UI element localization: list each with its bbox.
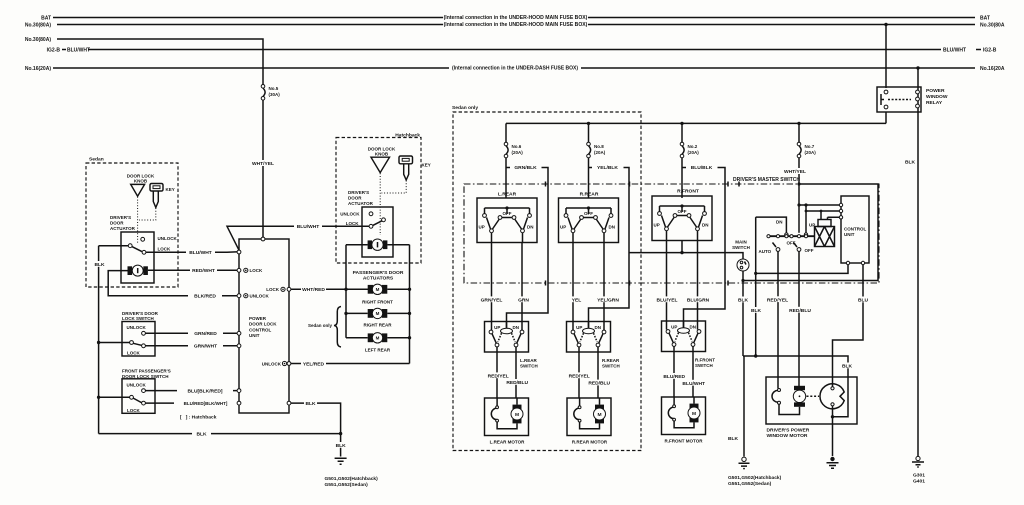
wire main switch to BLK output [742,271,744,356]
svg-text:G551,G552(Sedan): G551,G552(Sedan) [325,482,369,488]
svg-text:DOOR: DOOR [348,196,362,201]
svg-text:ACTUATORS: ACTUATORS [363,276,394,282]
svg-text:DRIVER'S: DRIVER'S [110,215,131,220]
svg-text:No.16(20A): No.16(20A) [25,66,51,72]
wire GRN/WHT [145,345,237,347]
actuator contacts [369,212,373,216]
hatchback actuator motor [368,240,372,249]
ground G301/G401 [916,456,920,460]
svg-text:No.30(80A): No.30(80A) [25,37,51,43]
wire relay output to window rail [885,112,887,123]
driver's master switch dash-dot boundary [464,184,879,283]
svg-text:BLU/WHT: BLU/WHT [67,48,90,54]
svg-text:OFF: OFF [805,248,814,253]
svg-text:R.FRONT: R.FRONT [677,188,699,194]
terminal UNLOCK in [237,294,241,298]
wire fuse No.8 to R.REAR master switch [588,158,590,198]
svg-text:GRN/WHT: GRN/WHT [194,344,217,350]
svg-text:SWITCH: SWITCH [695,363,713,368]
svg-text:G401: G401 [913,479,925,485]
svg-text:SWITCH: SWITCH [602,363,620,368]
rocker contact bar [768,235,815,237]
svg-text:UNLOCK: UNLOCK [158,236,178,241]
svg-text:BLK: BLK [751,308,762,314]
svg-text:LOCK: LOCK [250,268,263,273]
svg-text:RIGHT REAR: RIGHT REAR [364,322,393,327]
svg-text:BLU/WHT: BLU/WHT [943,48,966,54]
ground G501/G551 (control unit) [335,458,347,464]
wire actuator common to BLK rail [99,245,129,247]
terminal LOCK in [237,268,241,272]
svg-text:AUTO: AUTO [759,249,772,254]
svg-text:G501,G502(Hatchback): G501,G502(Hatchback) [728,475,782,481]
svg-text:WHT/RED: WHT/RED [302,287,325,293]
label RED/YEL [765,296,791,302]
svg-text:BLK/RED: BLK/RED [194,294,216,300]
svg-text:PASSENGER'S DOOR: PASSENGER'S DOOR [353,270,404,276]
svg-text:LEFT REAR: LEFT REAR [365,348,391,353]
door switch R.REAR [567,322,611,353]
wire YEL master to R.REAR switch [572,243,574,331]
driver's door actuator box (sedan) [121,232,154,283]
terminal GRN/WHT [237,344,241,348]
relay coil-contact dashed link [888,99,911,101]
svg-text:R.REAR: R.REAR [580,192,599,198]
actuator switch contacts [141,237,145,241]
wire BLU/BLK feed branch R.FRONT [682,168,725,330]
svg-text:No.16(20A: No.16(20A [980,66,1005,72]
svg-text:RED/YEL: RED/YEL [569,373,590,379]
svg-text:(20A): (20A) [688,150,700,155]
power window relay box [877,87,921,112]
sedan actuator motor [128,266,133,275]
terminal BLU/RED[BLK/WHT] [237,401,241,405]
svg-text:ACTUATOR: ACTUATOR [348,201,374,206]
fuse No.5 (30A) [261,85,280,101]
wire GRN/RED [145,332,237,334]
svg-text:BLU/RED[BLK/WHT]: BLU/RED[BLK/WHT] [184,401,228,406]
output BLK bottom [287,401,291,405]
wire right front motor row [346,288,410,290]
svg-text:No.7: No.7 [805,144,815,149]
svg-text:LOCK SWITCH: LOCK SWITCH [122,316,154,321]
svg-text:UNIT: UNIT [249,333,260,338]
svg-text:CONTROL: CONTROL [249,327,271,332]
wire right actuator bus [409,245,411,364]
svg-text:(Internal connection in the UN: (Internal connection in the UNDER-HOOD M… [444,15,588,21]
dotted link knob to actuator [379,173,381,235]
svg-text:BAT: BAT [980,16,990,22]
svg-text:No.30(80A): No.30(80A) [25,23,51,29]
svg-text:No.30(80A: No.30(80A [980,23,1005,29]
main switch symbol [737,259,749,271]
svg-text:No.5: No.5 [269,86,279,91]
wire RED/BLU output to driver's motor [798,251,800,386]
svg-text:ACTUATOR: ACTUATOR [110,226,136,231]
svg-text:(20A): (20A) [805,150,817,155]
wire fuse No.2 to R.FRONT master switch [681,158,683,198]
wire BAT bus [53,17,975,19]
motor RIGHT REAR [368,308,388,318]
auto-down relay coil box [818,220,831,227]
motor L.REAR [485,398,529,436]
window switch R.REAR (master) [559,198,619,243]
wire BLK to ground G501 [743,356,745,457]
svg-text:CONTROL: CONTROL [844,227,866,232]
fuse No.2 (20A) [680,123,699,157]
svg-text:WINDOW MOTOR: WINDOW MOTOR [767,433,808,439]
svg-text:WINDOW: WINDOW [926,94,948,100]
label WHT/YEL [784,168,806,174]
wire No.5 fuse vertical (WHT/YEL) [262,84,264,86]
svg-text:BLU/BLK: BLU/BLK [691,165,713,171]
wire left rear motor row [346,337,410,339]
wire No.16 bus down through relay to ground G301 [917,68,919,457]
label BLK at motor [841,363,856,369]
boundary ticks [546,182,740,286]
svg-text:RED/YEL: RED/YEL [767,297,788,303]
svg-text:Sedan only: Sedan only [308,323,333,328]
svg-text:IG2-B: IG2-B [47,48,61,54]
label BLU [857,297,872,303]
svg-text:YEL/BLK: YEL/BLK [597,165,618,171]
terminal BLU/WHT [237,250,241,254]
svg-text:RED/BLU: RED/BLU [588,381,610,387]
wire R.FRONT center stub to main switch feed [681,241,683,253]
svg-text:RED/BLU: RED/BLU [789,308,811,314]
svg-text:G301: G301 [913,473,925,479]
relay contact terminals right [916,90,920,94]
wire IG2-B bus [88,49,941,51]
motor link U [779,404,800,414]
svg-text:DRIVER'S: DRIVER'S [348,190,369,195]
svg-text:BLK: BLK [905,159,916,165]
svg-text:BLU/YEL: BLU/YEL [657,297,678,303]
wire YEL/BLK feed branch R.REAR [589,168,630,330]
svg-text:OFF: OFF [787,241,796,246]
svg-text:G501,G502(Hatchback): G501,G502(Hatchback) [325,476,379,482]
svg-text:KEY: KEY [422,162,431,167]
wire IG2-B short dash left [62,49,66,51]
svg-text:No.2: No.2 [688,144,698,149]
wire BLU/WHT actuator switch to control unit [146,251,239,254]
svg-text:SWITCH: SWITCH [732,245,750,250]
motor R.FRONT [662,397,706,435]
svg-text:BLU/WHT: BLU/WHT [682,381,705,387]
wire RED/YEL L.REAR [496,352,498,398]
window switch L.REAR (master) [477,198,537,243]
svg-text:RED/BLU: RED/BLU [506,380,528,386]
label RED/BLU [787,307,813,313]
dotted link key [382,181,407,194]
svg-text:KNOB: KNOB [375,152,389,157]
svg-text:L.REAR: L.REAR [520,358,538,363]
wire RED/BLU L.REAR [515,352,517,398]
svg-text:IG2-B: IG2-B [983,48,997,54]
svg-text:No.8: No.8 [594,144,604,149]
dotted link knob to actuator [137,197,139,244]
wire BLK rail left [98,246,100,434]
wire fuse No.6 to L.REAR master switch [505,158,507,198]
svg-text:LOCK: LOCK [127,351,140,356]
svg-text:G551,G552(Sedan): G551,G552(Sedan) [728,481,772,487]
svg-text:(20A): (20A) [594,150,606,155]
motor connector arc [772,390,779,402]
svg-text:(20A): (20A) [512,150,524,155]
relay terminal top-left [884,90,888,94]
control unit box [841,196,869,263]
wire BLK bottom rail of master switch [743,356,848,417]
terminal BLU[BLK/RED] [237,389,241,393]
wire WHT/YEL fuse No.7 down to master switch bar [798,158,800,233]
svg-text:WHT/YEL: WHT/YEL [252,161,274,167]
junction rail/No.8 [587,122,590,125]
wire RED/WHT motor to control unit LOCK [148,269,237,271]
wire DN contact drop [756,217,787,233]
wire BLU/RED R.FRONT [673,352,675,398]
svg-text:BLK: BLK [842,363,853,369]
relay coil bar [881,94,884,105]
coil riser wires [821,211,841,220]
door lock knob symbol [131,184,145,196]
wire No.30 bus down to power window relay [885,25,887,89]
wire motor right to actuator bus [387,244,409,246]
svg-text:BLU: BLU [858,297,869,303]
wire RED/YEL R.REAR [578,352,580,398]
svg-text:LOCK: LOCK [127,408,140,413]
svg-text:POWER: POWER [926,88,945,94]
wire No.30(80A) bus [57,24,975,26]
svg-text:KEY: KEY [166,187,175,192]
auto-down relay crosshatch box [815,227,835,247]
wire WHT/YEL down to control unit [262,100,264,237]
svg-text:UNIT: UNIT [844,232,855,237]
wire No.30(80A) branch to fuse No.5 [57,39,263,85]
svg-text:(Internal connection in the UN: (Internal connection in the UNDER-HOOD M… [444,22,588,28]
ground G501/G551 (master switch) [742,457,746,461]
front passenger's door lock switch box [122,379,155,414]
wire connector to ground [832,406,834,456]
wire right rear motor row [346,312,410,314]
svg-text:BLK: BLK [738,297,749,303]
svg-text:BLU/WHT: BLU/WHT [297,224,320,230]
fuse No.8 (20A) [587,123,606,157]
svg-text:FRONT PASSENGER'S: FRONT PASSENGER'S [122,369,171,374]
wire to control unit pin 2 [806,210,841,212]
svg-text:UNLOCK: UNLOCK [262,361,282,366]
key symbol [150,184,163,192]
wire control unit signal loop [743,184,878,281]
wire BLU/WHT hatchback to control unit [227,226,369,250]
terminal GRN/RED [237,331,241,335]
wire UP contact drop [805,205,807,233]
door switch L.REAR [485,322,529,353]
wire GRN master to L.REAR switch [521,243,523,331]
svg-text:R.FRONT: R.FRONT [695,357,715,362]
door switch R.FRONT [662,321,706,352]
svg-text:Sedan: Sedan [89,156,104,162]
wire left actuator bus [345,245,347,338]
wire GRN/BLK feed branch L.REAR [506,168,548,330]
svg-text:UNLOCK: UNLOCK [250,294,270,299]
wire BLK ground bus [99,433,341,435]
svg-text:DN: DN [776,220,783,225]
svg-text:BLU[BLK/RED]: BLU[BLK/RED] [187,388,222,394]
fuse No.6 (20A) [504,123,523,157]
wire WHT/YEL to control unit pin 1 [799,204,841,206]
svg-text:WHT/YEL: WHT/YEL [784,169,806,175]
wire BLU[BLK/RED] [145,390,237,392]
wire master switch ground net [756,217,848,356]
wire motor left to actuator bus [346,244,368,246]
svg-text:DOOR: DOOR [110,221,124,226]
fuse No.7 (20A) [797,123,816,157]
svg-text:RED/YEL: RED/YEL [488,373,509,379]
motor R.REAR [567,398,611,436]
svg-text:[ ] : Hatchback: [ ] : Hatchback [180,414,217,420]
wire GRN/YEL master to L.REAR switch [491,243,493,331]
wire WHT/RED lock output [291,288,368,290]
motor round connector [820,384,844,409]
driver's door actuator box (hatchback) [362,207,393,257]
svg-text:DOOR LOCK: DOOR LOCK [368,146,396,151]
svg-text:GRN/BLK: GRN/BLK [514,165,537,171]
svg-text:No.6: No.6 [512,144,522,149]
svg-text:BLU/RED: BLU/RED [663,374,685,380]
svg-text:R.REAR: R.REAR [602,358,620,363]
label BLK (second) [750,307,764,313]
motor LEFT REAR [368,333,388,343]
dotted link key to knob line [139,208,156,220]
svg-text:R.REAR MOTOR: R.REAR MOTOR [572,440,608,445]
svg-text:LOCK: LOCK [346,221,359,226]
relay terminal bottom-left [884,105,888,109]
svg-text:DRIVER'S DOOR: DRIVER'S DOOR [122,311,159,316]
power door lock control unit box [239,239,289,413]
junction rail/No.2 [680,122,683,125]
wire passenger's lock switch common [99,396,130,398]
driver's power window motor box [766,377,857,424]
label BLK [93,261,108,267]
wire RED/YEL output to driver's motor [777,251,779,388]
dashed mechanical link [807,395,820,397]
svg-text:SWITCH: SWITCH [520,363,538,368]
svg-text:(Internal connection in the UN: (Internal connection in the UNDER-DASH F… [452,66,578,72]
label BLK at ground [334,442,349,448]
motor RIGHT FRONT [368,284,388,294]
svg-text:UNLOCK: UNLOCK [127,382,147,387]
wire BLK/RED motor to control unit UNLOCK [108,271,237,296]
svg-text:YEL: YEL [572,297,582,303]
sedan dashed box [86,163,178,287]
svg-text:KNOB: KNOB [134,179,148,184]
svg-text:GRN: GRN [518,297,529,303]
svg-text:BLK: BLK [196,431,207,437]
wire BLU/WHT R.FRONT [692,352,694,398]
svg-text:GRN/YEL: GRN/YEL [481,297,503,303]
ground (driver's motor) [830,457,834,461]
svg-text:BLK: BLK [94,262,105,268]
junction feed/R.FRONT stub [680,251,683,254]
wire window power rail [506,122,886,124]
svg-text:RIGHT FRONT: RIGHT FRONT [362,300,393,305]
svg-text:YEL/GRN: YEL/GRN [597,297,619,303]
svg-text:UNLOCK: UNLOCK [340,211,360,216]
sedan-only dashed box [453,112,641,451]
wire BLU/YEL master to R.FRONT switch [666,241,668,330]
svg-text:(30A): (30A) [269,92,281,97]
window switch R.FRONT (master) [652,196,712,241]
key symbol (hatchback) [399,156,413,164]
svg-text:UNLOCK: UNLOCK [127,325,147,330]
junction No.16 bus to relay [916,66,919,69]
svg-text:BLK: BLK [336,443,347,449]
svg-text:L.REAR MOTOR: L.REAR MOTOR [490,440,525,445]
svg-text:LOCK: LOCK [158,247,171,252]
auto/off contacts below bar [773,243,798,248]
svg-text:DRIVER'S MASTER SWITCH: DRIVER'S MASTER SWITCH [733,177,800,183]
wire YEL/GRN master to R.REAR switch [603,243,605,331]
svg-text:BLK: BLK [728,436,739,442]
svg-text:BAT: BAT [41,16,51,22]
svg-text:Sedan only: Sedan only [452,105,478,111]
wire BLU control unit to motor connector [833,265,864,387]
svg-text:LOCK: LOCK [266,287,279,292]
label BLK [737,297,751,303]
wire BLU/GRN master to R.FRONT switch [697,241,699,330]
door lock knob symbol (hatchback) [371,157,390,172]
svg-text:DOOR LOCK: DOOR LOCK [249,322,277,327]
wire No.16(20A) bus [53,67,975,69]
wire BLU/RED[BLK/WHT] [145,402,238,404]
wire YEL/RED unlock output [291,363,410,365]
svg-text:BLK: BLK [305,401,316,407]
wire RED/BLU R.REAR [597,352,599,398]
svg-text:MAIN: MAIN [735,240,747,245]
wire driver's lock switch common [99,342,130,344]
terminal WHT/YEL top [261,237,265,241]
svg-text:BLU/WHT: BLU/WHT [189,250,212,256]
junction rail/No.7 [797,122,800,125]
svg-text:DOOR LOCK: DOOR LOCK [127,173,155,178]
driver's door lock switch box [122,322,155,357]
driver's window motor [794,386,805,390]
svg-text:RELAY: RELAY [926,100,943,106]
svg-text:YEL/RED: YEL/RED [303,361,325,367]
svg-text:POWER: POWER [249,316,267,321]
hatchback dashed box [336,138,421,264]
label WHT/YEL [252,160,278,166]
svg-text:L.REAR: L.REAR [498,192,517,198]
wire main switch feed [629,253,743,259]
svg-text:RED/WHT: RED/WHT [192,268,215,274]
svg-text:GRN/RED: GRN/RED [194,331,217,337]
junction No.30 bus to relay [884,23,887,26]
wire IG2-B short dash right [976,49,981,51]
svg-text:R.FRONT MOTOR: R.FRONT MOTOR [665,439,704,444]
svg-text:BLU/GRN: BLU/GRN [687,297,710,303]
svg-text:DRIVER'S POWER: DRIVER'S POWER [767,428,810,434]
